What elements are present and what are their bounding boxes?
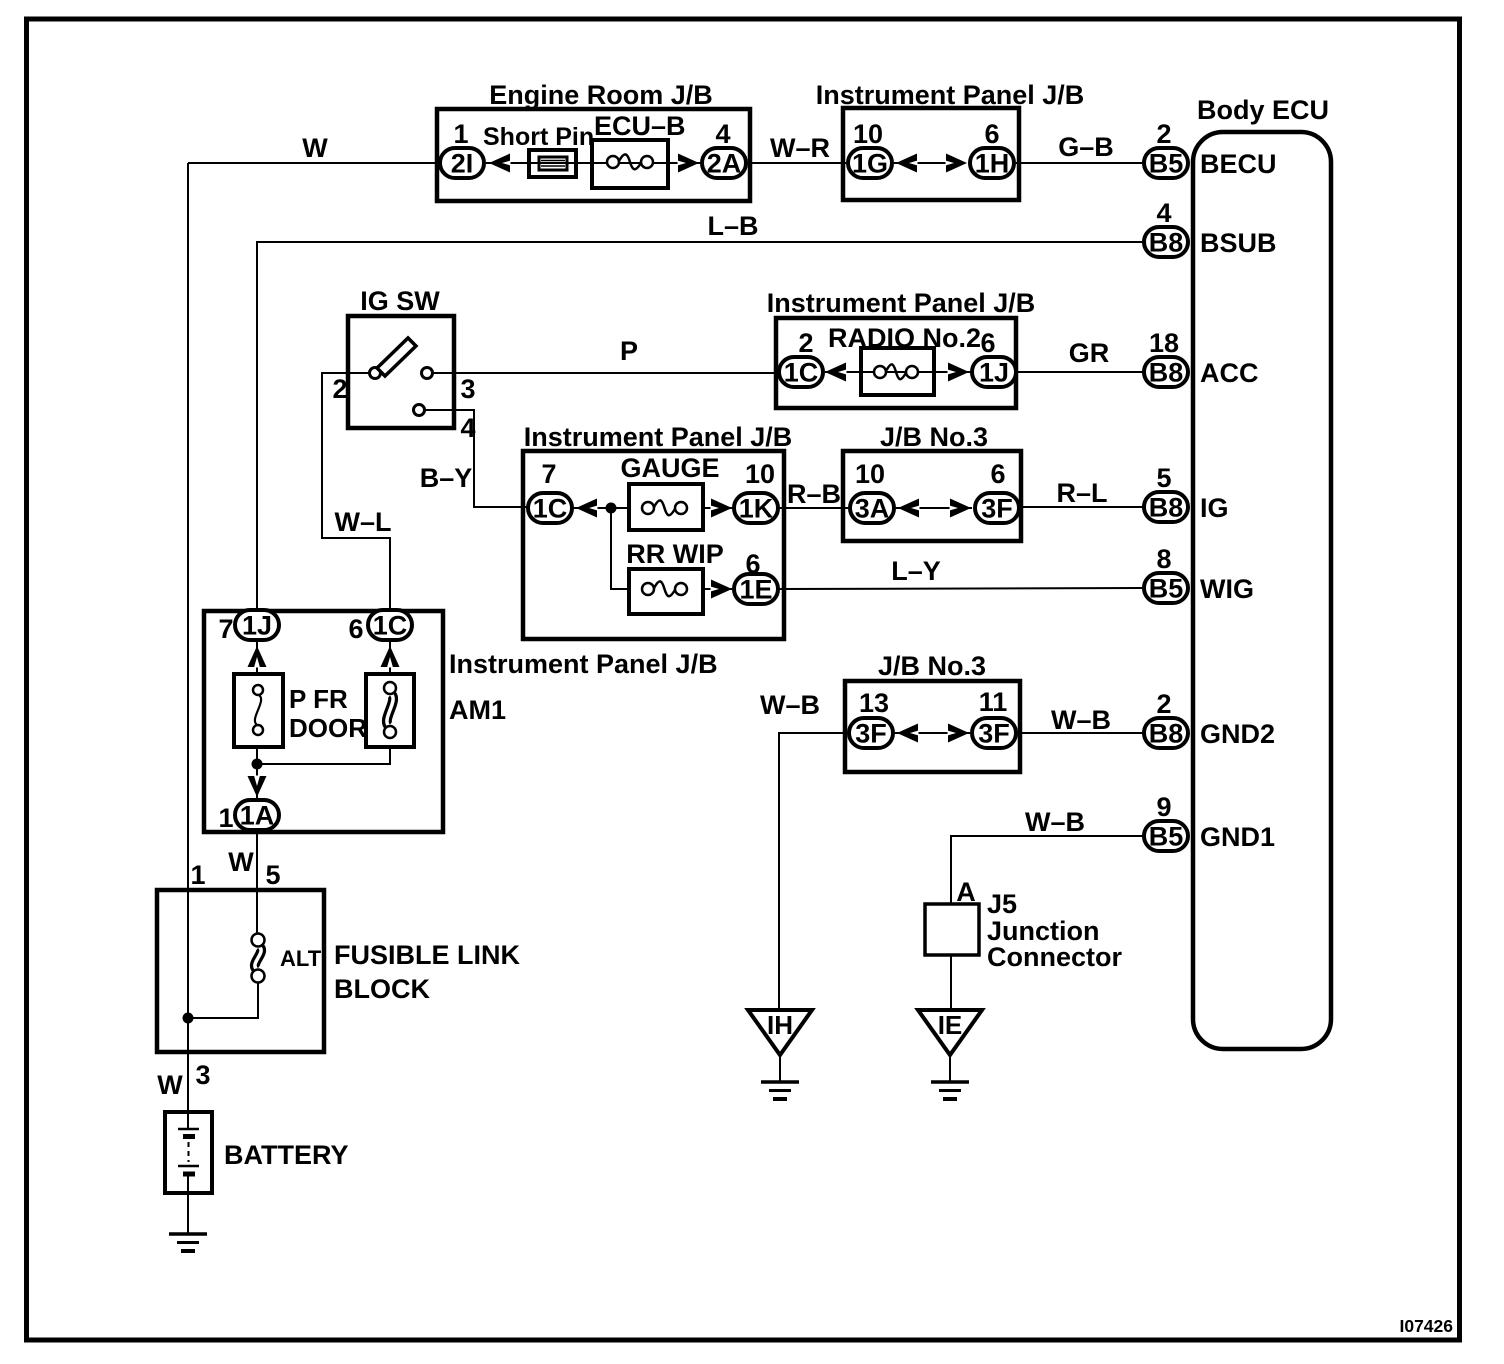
svg-text:B8: B8 xyxy=(1149,493,1184,523)
FUSIBLE LINK label xyxy=(334,940,520,970)
connector 1A xyxy=(235,800,279,831)
svg-text:J/B No.3: J/B No.3 xyxy=(878,651,986,681)
pin 4 label (2A) xyxy=(715,119,730,149)
pin 7 label (1J AM1) xyxy=(218,614,233,644)
J/B No.3 (upper) box xyxy=(843,451,1021,541)
svg-text:5: 5 xyxy=(265,860,280,890)
pin 10 label (1K) xyxy=(745,459,775,489)
svg-text:1J: 1J xyxy=(979,358,1009,388)
Connector label xyxy=(987,942,1122,972)
terminal name GND2 xyxy=(1200,719,1275,749)
ECU-B fuse label xyxy=(594,111,686,141)
svg-text:B5: B5 xyxy=(1149,574,1184,604)
svg-text:1: 1 xyxy=(218,803,233,833)
connector 3F (lower left) xyxy=(849,718,893,749)
GAUGE fuse label xyxy=(620,453,719,483)
junction node (AM1) xyxy=(252,759,263,770)
svg-text:Body ECU: Body ECU xyxy=(1197,95,1329,125)
svg-text:3F: 3F xyxy=(981,494,1013,524)
svg-text:GAUGE: GAUGE xyxy=(620,453,719,483)
fuse RR WIP box xyxy=(629,569,703,614)
label W-B (left) xyxy=(760,690,820,720)
wire inside J/B No.3 upper xyxy=(896,507,972,509)
connector 1H xyxy=(970,148,1014,179)
svg-text:4: 4 xyxy=(715,119,730,149)
ground point IE xyxy=(918,1010,982,1082)
svg-text:W: W xyxy=(228,847,254,877)
label W-B (right) xyxy=(1051,705,1111,735)
svg-text:BATTERY: BATTERY xyxy=(224,1140,349,1170)
svg-text:6: 6 xyxy=(348,614,363,644)
arrow into 1H xyxy=(946,154,968,173)
arrow into 1K xyxy=(711,499,733,518)
pin 1 label (fusible link) xyxy=(190,860,205,890)
svg-text:7: 7 xyxy=(218,614,233,644)
pin 1 label (1A) xyxy=(218,803,233,833)
svg-text:AM1: AM1 xyxy=(449,695,506,725)
svg-text:3: 3 xyxy=(460,374,475,404)
BLOCK label xyxy=(334,974,430,1004)
connector B5 (WIG) xyxy=(1144,573,1188,604)
J5 label xyxy=(987,889,1017,919)
svg-text:5: 5 xyxy=(1156,463,1171,493)
arrow into 3F (lower right) xyxy=(948,724,970,743)
IG SW contact pin 3 xyxy=(422,368,433,379)
svg-text:Instrument Panel J/B: Instrument Panel J/B xyxy=(816,80,1085,110)
wire 1C to GAUGE fuse xyxy=(574,507,630,509)
svg-text:3A: 3A xyxy=(855,494,890,524)
connector 1E xyxy=(734,574,778,605)
svg-text:B8: B8 xyxy=(1149,719,1184,749)
svg-text:2: 2 xyxy=(332,374,347,404)
wire RR WIP fuse to 1E xyxy=(702,588,733,590)
svg-text:B–Y: B–Y xyxy=(420,463,473,493)
svg-text:10: 10 xyxy=(855,459,885,489)
RR WIP fuse label xyxy=(626,539,724,569)
fuse GAUGE element xyxy=(642,500,687,515)
fuse P FR DOOR box xyxy=(234,674,283,747)
fuse ECU-B box xyxy=(592,140,668,188)
wire AM1 fuse to junction xyxy=(257,747,390,764)
arrow into 1G xyxy=(896,154,918,173)
pin 6 label (3F upper) xyxy=(990,459,1005,489)
fuse P FR DOOR element xyxy=(253,685,263,735)
Engine Room J/B box xyxy=(437,109,750,201)
svg-text:W: W xyxy=(302,133,328,163)
arrow up to 1J xyxy=(248,646,267,668)
svg-text:W–B: W–B xyxy=(760,690,820,720)
svg-text:3F: 3F xyxy=(855,719,887,749)
IG SW title xyxy=(360,286,440,316)
svg-text:13: 13 xyxy=(859,688,889,718)
DOOR label xyxy=(289,713,367,743)
pin 2 label (IG SW) xyxy=(332,374,347,404)
svg-text:2: 2 xyxy=(798,328,813,358)
wire W-B (GND1 to J5) xyxy=(951,836,1142,904)
terminal name GND1 xyxy=(1200,822,1275,852)
svg-text:ALT: ALT xyxy=(280,946,322,971)
pin 13 label (3F left) xyxy=(859,688,889,718)
BATTERY label xyxy=(224,1140,349,1170)
svg-text:Instrument Panel J/B: Instrument Panel J/B xyxy=(767,288,1036,318)
pin 6 label (1J radio) xyxy=(980,328,995,358)
connector 2I xyxy=(440,148,484,179)
junction node (gauge feed) xyxy=(606,503,617,514)
svg-text:W–L: W–L xyxy=(335,507,392,537)
wire junction to RR WIP fuse xyxy=(611,508,630,589)
pin 2 label (1C radio) xyxy=(798,328,813,358)
wire J5 to IE ground xyxy=(950,955,952,1010)
label W (1A wire) xyxy=(228,847,254,877)
junction node (fusible link) xyxy=(183,1013,194,1024)
label W-R xyxy=(770,133,830,163)
wire battery to ground xyxy=(187,1174,189,1234)
label W (battery wire) xyxy=(157,1070,183,1100)
svg-text:B8: B8 xyxy=(1149,358,1184,388)
pin 6 label (1C AM1) xyxy=(348,614,363,644)
svg-text:W–B: W–B xyxy=(1051,705,1111,735)
pin A label (J5) xyxy=(956,877,976,907)
FUSIBLE LINK BLOCK box xyxy=(157,890,324,1052)
AM1 label xyxy=(449,695,506,725)
arrow into 1E xyxy=(711,580,733,599)
svg-text:W: W xyxy=(157,1070,183,1100)
label W-L xyxy=(335,507,392,537)
svg-text:1C: 1C xyxy=(373,611,408,641)
IG SW wire pin 2 xyxy=(322,373,390,609)
svg-text:GND2: GND2 xyxy=(1200,719,1275,749)
connector B5 (BECU) xyxy=(1144,148,1188,179)
wire 1J to P FR DOOR fuse xyxy=(256,642,258,674)
pin 4 label (BSUB) xyxy=(1156,198,1171,228)
IG SW box xyxy=(348,316,454,428)
Body ECU title xyxy=(1197,95,1329,125)
connector B8 (GND2) xyxy=(1144,718,1188,749)
svg-text:BLOCK: BLOCK xyxy=(334,974,430,1004)
wire L-Y (1E to WIG) xyxy=(779,588,1142,589)
IG SW contact pin 4 xyxy=(414,405,425,416)
connector 2A xyxy=(702,148,746,179)
label L-B xyxy=(707,211,758,241)
svg-text:IG SW: IG SW xyxy=(360,286,440,316)
Instrument Panel J/B (gauge) title xyxy=(524,422,793,452)
pin 7 label (1C gauge) xyxy=(541,459,556,489)
arrow into 3F (lower left) xyxy=(897,724,919,743)
svg-text:I07426: I07426 xyxy=(1399,1316,1453,1336)
arrow into 3A xyxy=(898,499,920,518)
svg-text:Short Pin: Short Pin xyxy=(483,123,594,151)
svg-text:Instrument Panel J/B: Instrument Panel J/B xyxy=(449,649,718,679)
svg-text:3: 3 xyxy=(195,1060,210,1090)
pin 18 label (ACC) xyxy=(1149,328,1179,358)
svg-text:1A: 1A xyxy=(240,801,275,831)
Instrument Panel J/B (radio) box xyxy=(776,318,1016,408)
svg-text:1G: 1G xyxy=(852,149,888,179)
junction connector J5 box xyxy=(925,904,979,955)
svg-text:2: 2 xyxy=(1156,119,1171,149)
svg-text:1C: 1C xyxy=(784,358,819,388)
wire 1A to fusible link block xyxy=(256,832,258,934)
svg-text:2A: 2A xyxy=(707,149,742,179)
arrow into 2I xyxy=(489,154,511,173)
arrow into 1C (gauge) xyxy=(576,499,598,518)
svg-text:2: 2 xyxy=(1156,689,1171,719)
connector B5 (GND1) xyxy=(1144,821,1188,852)
fuse RR WIP element xyxy=(642,581,687,596)
terminal name WIG xyxy=(1200,574,1254,604)
svg-text:J5: J5 xyxy=(987,889,1017,919)
battery box xyxy=(165,1112,212,1193)
wire R-B (1K to 3A) xyxy=(779,507,848,509)
svg-text:1H: 1H xyxy=(975,149,1010,179)
wire ALT to junction xyxy=(188,982,258,1018)
svg-text:L–Y: L–Y xyxy=(891,556,941,586)
J/B No.3 (upper) title xyxy=(880,422,988,452)
connector 3F (lower right) xyxy=(972,718,1016,749)
wire W-B left (3F to IH ground) xyxy=(779,733,847,1010)
svg-text:WIG: WIG xyxy=(1200,574,1254,604)
wire W-R (2A to 1G) xyxy=(750,162,846,164)
label R-B xyxy=(787,479,841,509)
pin 10 label (1G) xyxy=(853,119,883,149)
svg-text:BSUB: BSUB xyxy=(1200,228,1277,258)
label P xyxy=(620,336,638,366)
battery cell plates xyxy=(178,1129,199,1174)
svg-text:4: 4 xyxy=(460,413,475,443)
svg-text:1J: 1J xyxy=(242,611,272,641)
connector 1G xyxy=(848,148,892,179)
svg-text:IG: IG xyxy=(1200,493,1229,523)
pin 1 label (2I) xyxy=(453,119,468,149)
arrow up to 1C xyxy=(381,646,400,668)
wire inside radio block xyxy=(825,371,970,373)
svg-text:Connector: Connector xyxy=(987,942,1122,972)
wire P FR DOOR fuse to 1A xyxy=(256,747,258,800)
fuse RADIO No.2 box xyxy=(861,348,934,395)
svg-text:FUSIBLE LINK: FUSIBLE LINK xyxy=(334,940,520,970)
svg-text:GR: GR xyxy=(1069,338,1110,368)
Short Pin label xyxy=(483,123,594,151)
fuse AM1 element xyxy=(384,682,396,738)
pin 5 label (IG) xyxy=(1156,463,1171,493)
pin 8 label (WIG) xyxy=(1156,544,1171,574)
ground symbol (IH) xyxy=(761,1082,799,1099)
svg-text:1E: 1E xyxy=(739,575,772,605)
connector 1C (radio) xyxy=(779,357,823,388)
svg-text:B5: B5 xyxy=(1149,149,1184,179)
wire R-L (3F to IG) xyxy=(1021,506,1142,508)
ground point IH xyxy=(748,1010,812,1082)
svg-text:RR WIP: RR WIP xyxy=(626,539,724,569)
pin 3 label (fusible link) xyxy=(195,1060,210,1090)
svg-text:4: 4 xyxy=(1156,198,1171,228)
svg-text:G–B: G–B xyxy=(1058,132,1114,162)
Instrument Panel J/B (AM1) box xyxy=(204,611,443,832)
pin 9 label (GND1) xyxy=(1156,792,1171,822)
figure number I07426 xyxy=(1399,1316,1453,1336)
Instrument Panel J/B (top) title xyxy=(816,80,1085,110)
arrow into 2A xyxy=(678,154,700,173)
Instrument Panel J/B (radio) title xyxy=(767,288,1036,318)
RADIO No.2 fuse label xyxy=(828,323,981,353)
fuse AM1 box xyxy=(366,674,414,747)
connector B8 (IG) xyxy=(1144,492,1188,523)
svg-text:J/B No.3: J/B No.3 xyxy=(880,422,988,452)
svg-text:9: 9 xyxy=(1156,792,1171,822)
svg-text:1C: 1C xyxy=(533,494,568,524)
label GR xyxy=(1069,338,1110,368)
svg-text:R–L: R–L xyxy=(1056,478,1107,508)
label B-Y xyxy=(420,463,473,493)
short pin symbol xyxy=(529,150,576,177)
svg-text:8: 8 xyxy=(1156,544,1171,574)
pin 2 label (GND2) xyxy=(1156,689,1171,719)
ground symbol (IE) xyxy=(931,1082,969,1099)
svg-text:R–B: R–B xyxy=(787,479,841,509)
fusible link ALT element xyxy=(252,934,265,983)
svg-text:1K: 1K xyxy=(739,494,774,524)
pin 5 label (fusible link) xyxy=(265,860,280,890)
svg-text:B8: B8 xyxy=(1149,228,1184,258)
J/B No.3 (lower) box xyxy=(845,681,1020,772)
arrow into 3F (upper) xyxy=(950,499,972,518)
Junction label xyxy=(987,916,1100,946)
connector B8 (BSUB) xyxy=(1144,227,1188,258)
wire L-B (BSUB to AM1 1J) xyxy=(257,242,1142,609)
pin 11 label (3F right) xyxy=(979,687,1008,717)
pin 3 label (IG SW) xyxy=(460,374,475,404)
pin 10 label (3A) xyxy=(855,459,885,489)
svg-text:BECU: BECU xyxy=(1200,149,1277,179)
connector 1C (gauge) xyxy=(528,493,572,524)
svg-text:ECU–B: ECU–B xyxy=(594,111,686,141)
svg-text:3F: 3F xyxy=(978,719,1010,749)
svg-text:10: 10 xyxy=(745,459,775,489)
wire GR (1J to ACC) xyxy=(1018,371,1142,373)
label L-Y xyxy=(891,556,941,586)
svg-text:18: 18 xyxy=(1149,328,1179,358)
IG SW contact pin 2 xyxy=(370,368,381,379)
wire W top horizontal (battery rail to Engine Room J/B) xyxy=(188,162,442,164)
svg-text:GND1: GND1 xyxy=(1200,822,1275,852)
terminal name IG xyxy=(1200,493,1229,523)
label W (top wire) xyxy=(302,133,328,163)
connector 3A xyxy=(850,493,894,524)
wire GAUGE fuse to 1K xyxy=(702,507,733,509)
svg-text:6: 6 xyxy=(984,119,999,149)
wire W left vertical (down to fusible link block) xyxy=(187,163,189,1129)
P FR label xyxy=(289,684,348,714)
pin 2 label (BECU) xyxy=(1156,119,1171,149)
pin 4 label (IG SW) xyxy=(460,413,475,443)
connector 1J (AM1) xyxy=(235,610,279,641)
svg-text:1: 1 xyxy=(190,860,205,890)
svg-text:Engine Room J/B: Engine Room J/B xyxy=(489,80,713,110)
svg-text:W–R: W–R xyxy=(770,133,830,163)
svg-text:ACC: ACC xyxy=(1200,358,1259,388)
IG SW wire pin 3 / P wire xyxy=(432,372,777,374)
Instrument Panel J/B (gauge) box xyxy=(523,451,784,639)
fuse ECU-B element xyxy=(607,154,653,169)
label G-B xyxy=(1058,132,1114,162)
wire G-B (1H to BECU) xyxy=(1016,162,1142,164)
connector 3F (upper) xyxy=(975,493,1019,524)
wire inside (1G to 1H) xyxy=(894,162,946,164)
IG SW lever xyxy=(377,338,416,376)
svg-text:10: 10 xyxy=(853,119,883,149)
arrow into 1C (radio) xyxy=(825,363,847,382)
J/B No.3 (lower) title xyxy=(878,651,986,681)
wire inside Engine Room J/B xyxy=(486,162,702,164)
svg-text:P: P xyxy=(620,336,638,366)
svg-text:L–B: L–B xyxy=(707,211,758,241)
connector 1J (radio) xyxy=(972,357,1016,388)
connector B8 (ACC) xyxy=(1144,357,1188,388)
svg-text:DOOR: DOOR xyxy=(289,713,367,743)
svg-text:W–B: W–B xyxy=(1025,807,1085,837)
svg-text:2I: 2I xyxy=(451,149,474,179)
terminal name BECU xyxy=(1200,149,1277,179)
pin 6 label (1E) xyxy=(745,549,760,579)
Instrument Panel J/B (AM1) title xyxy=(449,649,718,679)
wire inside J/B No.3 lower xyxy=(895,732,970,734)
fuse RADIO No.2 element xyxy=(874,364,918,379)
svg-text:IE: IE xyxy=(938,1010,963,1040)
IG SW wire pin 4 / B-Y wire xyxy=(424,410,527,507)
arrow down to 1A xyxy=(248,776,267,798)
ground (battery) xyxy=(169,1234,207,1251)
label R-L xyxy=(1056,478,1107,508)
Instrument Panel J/B (top) box xyxy=(843,108,1019,200)
ALT label xyxy=(280,946,322,971)
svg-text:IH: IH xyxy=(767,1010,793,1040)
connector 1C (AM1) xyxy=(368,610,412,641)
Body ECU box xyxy=(1193,132,1331,1049)
svg-text:B5: B5 xyxy=(1149,822,1184,852)
svg-text:7: 7 xyxy=(541,459,556,489)
wire W-B right (3F to GND2) xyxy=(1018,732,1142,734)
fuse GAUGE box xyxy=(629,484,703,530)
terminal name ACC xyxy=(1200,358,1259,388)
terminal name BSUB xyxy=(1200,228,1277,258)
Engine Room J/B title xyxy=(489,80,713,110)
svg-text:11: 11 xyxy=(979,687,1008,717)
svg-text:1: 1 xyxy=(453,119,468,149)
pin 6 label (1H) xyxy=(984,119,999,149)
label W-B (GND1) xyxy=(1025,807,1085,837)
svg-text:6: 6 xyxy=(980,328,995,358)
svg-text:P FR: P FR xyxy=(289,684,348,714)
svg-text:Instrument Panel J/B: Instrument Panel J/B xyxy=(524,422,793,452)
svg-text:6: 6 xyxy=(990,459,1005,489)
connector 1K xyxy=(734,493,778,524)
arrow into 1J (radio) xyxy=(948,363,970,382)
wire 1C to AM1 fuse xyxy=(389,642,391,674)
